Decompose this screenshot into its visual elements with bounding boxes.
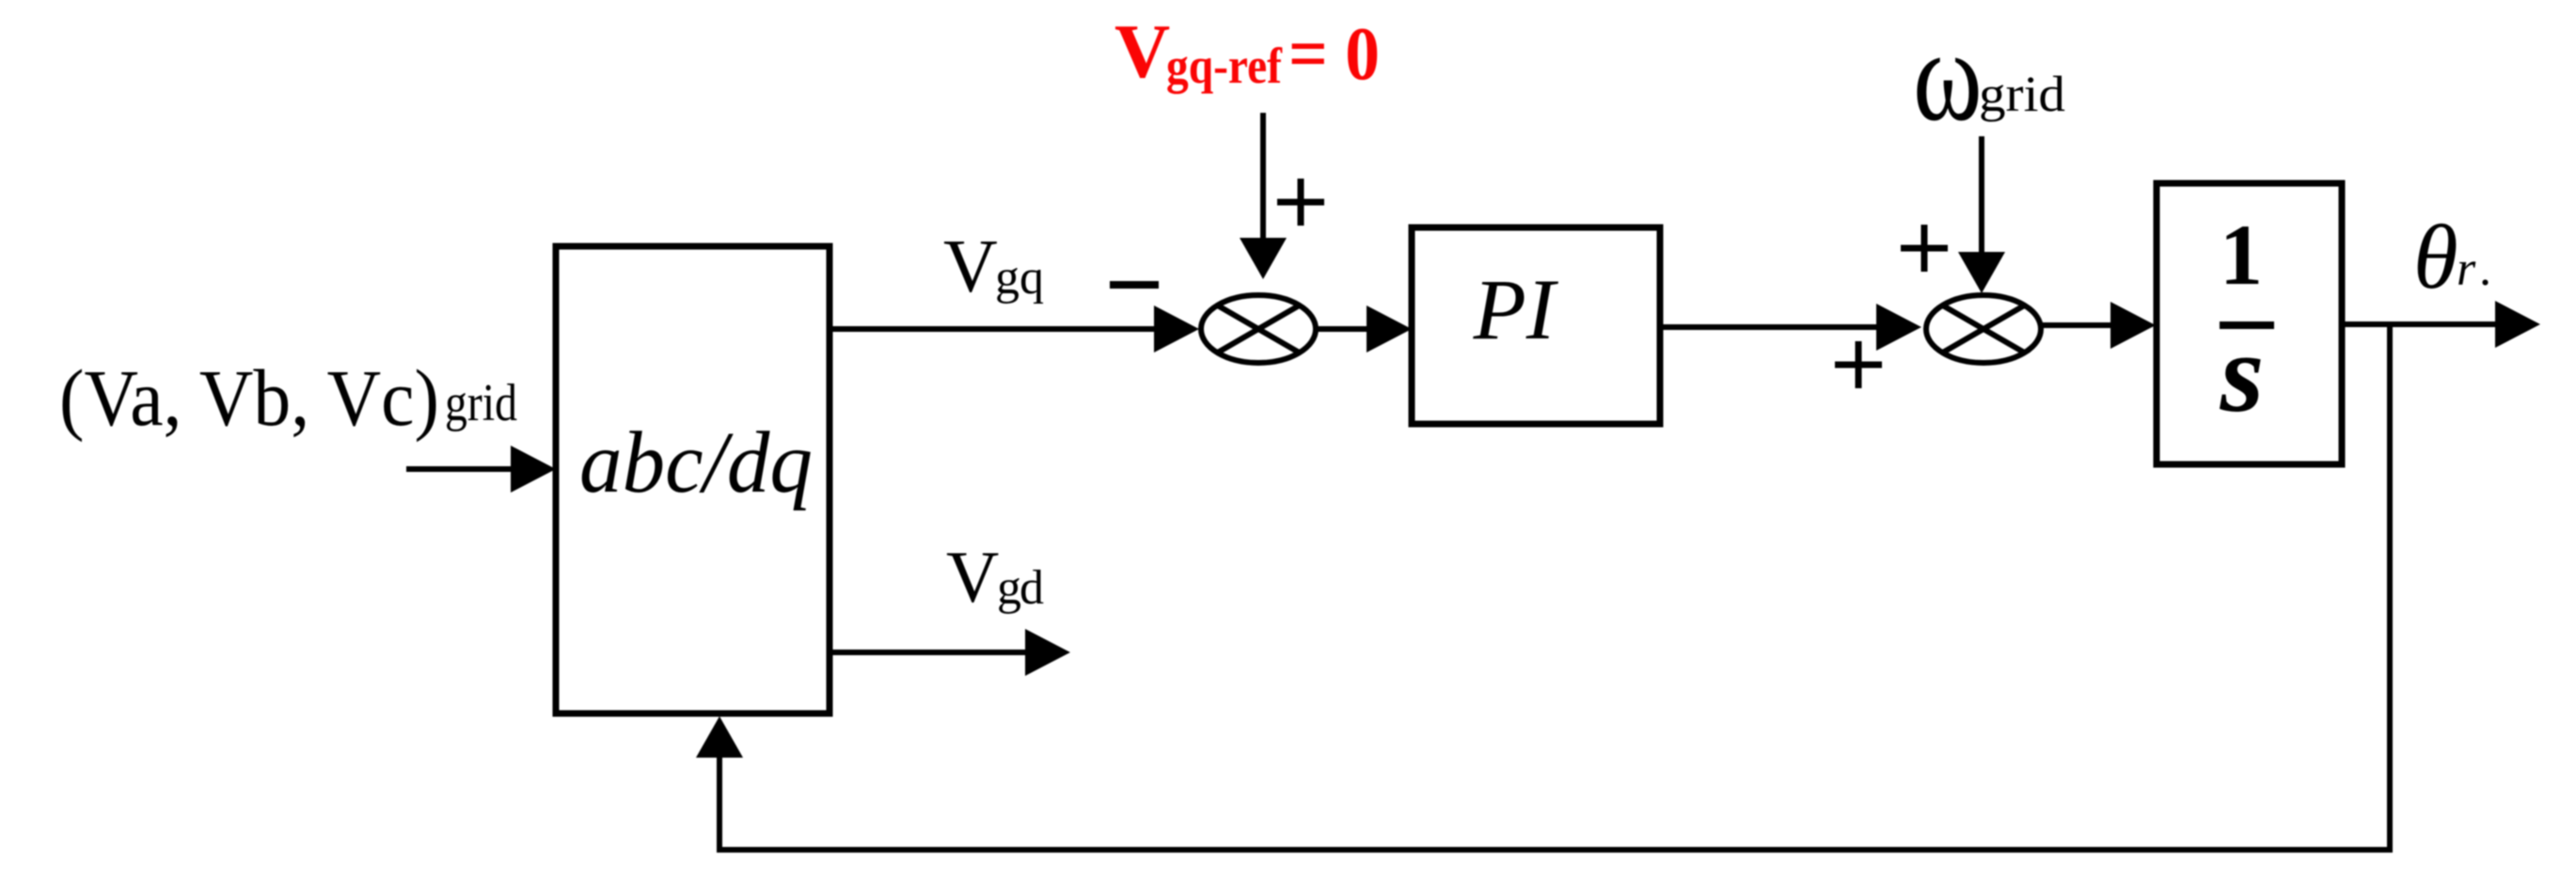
svg-text:ω: ω — [1913, 3, 1983, 149]
wire junction 1 to PI — [1317, 305, 1412, 352]
block PI — [1412, 227, 1660, 424]
svg-text:θ: θ — [2413, 207, 2458, 307]
svg-text:(Va, Vb, Vc): (Va, Vb, Vc) — [59, 352, 439, 443]
node omega grid label — [1913, 3, 2065, 149]
wire Vgq from abc/dq to junction 1 — [830, 305, 1199, 352]
svg-text:PI: PI — [1473, 261, 1559, 357]
svg-text:s: s — [2220, 310, 2265, 435]
svg-text:V: V — [943, 226, 998, 308]
node Vgq-ref label — [1114, 8, 1380, 96]
svg-text:V: V — [946, 536, 999, 618]
block 1/s integrator — [2157, 183, 2342, 464]
svg-text:grid: grid — [1979, 66, 2065, 122]
plus sign at junction 1 top input — [1277, 179, 1324, 226]
wire Vgq-ref down into summing junction 1 — [1240, 113, 1287, 279]
svg-text:V: V — [1114, 8, 1170, 94]
wire feedback up into abc/dq — [696, 716, 743, 853]
svg-text:gd: gd — [997, 561, 1044, 615]
wire feedback from output down — [2387, 324, 2393, 850]
minus sign at junction 1 left input — [1110, 281, 1159, 289]
wire omega grid down into junction 2 — [1958, 136, 2005, 293]
wire output theta_r — [2342, 301, 2540, 348]
plus sign at junction 2 top input — [1901, 225, 1948, 272]
node (Va,Vb,Vc)grid label — [59, 352, 517, 443]
summing junction 2 — [1926, 295, 2041, 363]
svg-text:abc/dq: abc/dq — [579, 415, 813, 511]
plus sign at junction 2 left input — [1835, 341, 1882, 388]
svg-text:= 0: = 0 — [1288, 13, 1380, 96]
svg-text:r: r — [2457, 243, 2476, 296]
summing junction 1 — [1201, 295, 1316, 363]
svg-text:gq-ref: gq-ref — [1166, 38, 1283, 94]
node Vgq label — [943, 226, 1044, 308]
svg-text:gq: gq — [995, 251, 1044, 305]
svg-text:1: 1 — [2220, 207, 2263, 303]
wire Vgd from abc/dq — [830, 629, 1070, 676]
node Vgd label — [946, 536, 1044, 618]
node theta_r label — [2413, 207, 2491, 307]
wire feedback bottom horizontal — [719, 847, 2393, 853]
wire PI to junction 2 — [1660, 304, 1921, 351]
wire input arrow into abc/dq — [406, 446, 556, 493]
svg-text:.: . — [2479, 243, 2491, 296]
wire junction 2 to 1/s block — [2043, 302, 2156, 349]
block abc/dq — [556, 246, 830, 713]
svg-text:grid: grid — [445, 374, 517, 432]
